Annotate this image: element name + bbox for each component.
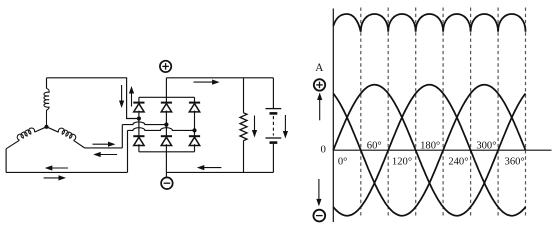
positive terminal symbol (circuit) bbox=[160, 61, 171, 72]
wye center node bbox=[44, 125, 48, 129]
svg-text:240°: 240° bbox=[448, 156, 468, 167]
negative terminal symbol (circuit) bbox=[161, 177, 173, 189]
graph dashed gridlines (60-degree intervals) bbox=[361, 8, 526, 216]
junction node column 3 bbox=[192, 128, 196, 132]
arrow current left (above negative rail) bbox=[197, 165, 222, 170]
wire positive output rail bbox=[166, 78, 273, 98]
labels above axis (60 180 300 degrees) bbox=[367, 140, 497, 151]
svg-text:60°: 60° bbox=[367, 140, 382, 151]
arrow charge current (right of battery) bbox=[283, 115, 288, 139]
wire phase2 (right coil to rectifier column 2) bbox=[85, 122, 167, 148]
diode D3 (top row, column 3) bbox=[189, 103, 200, 112]
arrow load current (right of resistor) bbox=[252, 116, 257, 138]
wire phase3 (left coil via bottom to rectifier column 3) bbox=[6, 128, 194, 173]
phase B sine wave bbox=[333, 85, 525, 216]
arrow current up (right of phase1 wire) bbox=[129, 86, 134, 107]
svg-text:A: A bbox=[315, 62, 323, 74]
phase A sine wave bbox=[333, 85, 525, 216]
arrow current left (above bottom-left wire) bbox=[45, 165, 68, 170]
svg-text:0°: 0° bbox=[338, 156, 348, 167]
diode D2 (top row, column 2) bbox=[161, 103, 172, 112]
arrow current right (below bottom-left wire) bbox=[44, 175, 66, 180]
wire bridge top rail bbox=[139, 96, 195, 98]
svg-text:360°: 360° bbox=[505, 156, 525, 167]
phase C sine wave bbox=[333, 85, 525, 216]
graph vertical axis bbox=[332, 9, 334, 223]
diode D5 (bottom row, column 2) bbox=[161, 136, 172, 145]
arrow current left (below phase2 wire) bbox=[93, 152, 117, 157]
diode D6 (bottom row, column 3) bbox=[189, 136, 200, 145]
svg-text:120°: 120° bbox=[392, 156, 412, 167]
wire diode column 3 bbox=[194, 97, 196, 152]
svg-text:180°: 180° bbox=[420, 140, 440, 151]
wire bridge bottom rail bbox=[139, 151, 195, 153]
stator coil L3 (lower-right phase winding) bbox=[47, 127, 85, 148]
resistor R (load) bbox=[240, 78, 247, 173]
battery B1 bbox=[266, 78, 282, 173]
rectified DC output waveform (scalloped) bbox=[333, 14, 525, 32]
svg-text:300°: 300° bbox=[476, 140, 496, 151]
arrow current down (left of phase1 wire) bbox=[119, 85, 124, 108]
negative symbol (graph axis) bbox=[313, 210, 325, 222]
stator coil L1 (top phase winding) bbox=[44, 78, 49, 127]
positive symbol (graph axis) bbox=[314, 79, 325, 90]
svg-text:0: 0 bbox=[320, 144, 325, 156]
labels below axis (0 120 240 360 degrees) bbox=[338, 156, 525, 167]
wire phase1 (top coil to rectifier column 1) bbox=[47, 78, 139, 119]
arrow up (positive direction) bbox=[317, 93, 322, 121]
junction node column 2 bbox=[164, 123, 168, 127]
junction node column 1 bbox=[137, 116, 141, 120]
wire diode column 1 bbox=[138, 97, 140, 152]
arrow current right (above phase2 wire) bbox=[93, 142, 116, 147]
arrow current right (below positive rail) bbox=[194, 80, 220, 85]
stator coil L2 (lower-left phase winding) bbox=[6, 127, 46, 149]
diode D4 (bottom row, column 1) bbox=[133, 136, 144, 145]
diode D1 (top row, column 1) bbox=[133, 103, 144, 112]
arrow down (negative direction) bbox=[316, 179, 321, 206]
graph horizontal axis bbox=[333, 149, 551, 151]
wire negative output rail bbox=[166, 152, 273, 177]
wire diode column 2 bbox=[165, 97, 167, 152]
